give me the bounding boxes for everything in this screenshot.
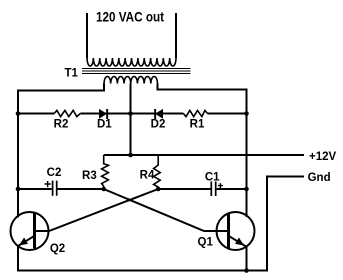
svg-text:+12V: +12V [309,151,337,163]
svg-text:120 VAC out: 120 VAC out [96,10,164,25]
svg-text:D1: D1 [97,119,112,131]
svg-text:T1: T1 [65,68,79,80]
svg-text:C2: C2 [47,167,62,179]
svg-text:D2: D2 [151,119,166,131]
svg-text:Q2: Q2 [50,243,65,255]
svg-text:R3: R3 [82,170,97,182]
svg-text:Q1: Q1 [198,237,214,249]
svg-text:R1: R1 [190,119,205,131]
svg-text:R2: R2 [54,119,69,131]
svg-text:C1: C1 [205,172,220,184]
svg-text:R4: R4 [140,170,155,182]
svg-text:Gnd: Gnd [308,172,331,184]
